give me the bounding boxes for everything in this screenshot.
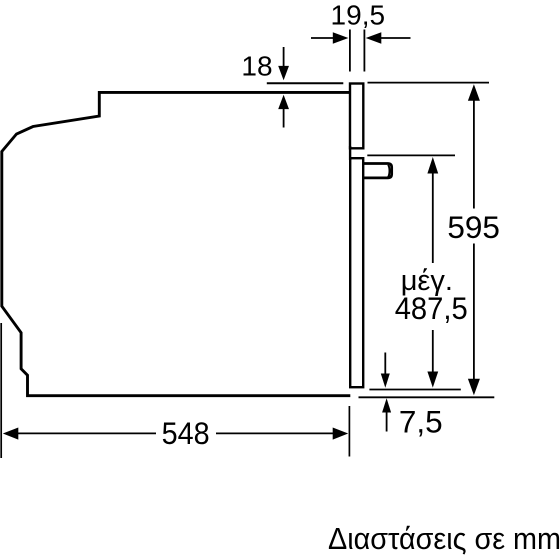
dimension 18 down arrow <box>283 47 285 68</box>
svg-text:548: 548 <box>162 415 210 451</box>
dimension 487,5 up arrow <box>427 157 438 174</box>
dimension 19,5 right arrow <box>380 37 411 39</box>
bottom reference line <box>359 396 495 398</box>
dimension 19,5 extension line left <box>349 30 351 72</box>
hinge knob <box>363 164 391 178</box>
dimension 19,5 left arrow <box>311 37 335 39</box>
oven top trim line <box>267 82 344 84</box>
svg-text:Διαστάσεις σε mm: Διαστάσεις σε mm <box>328 522 560 556</box>
dimension 487,5 top extension line <box>367 154 455 156</box>
dimension 7,5 up arrow <box>382 398 391 412</box>
dimension 595 down arrowhead <box>468 379 480 396</box>
dimension 19,5 extension line right <box>363 30 365 72</box>
hinge knob cap arc <box>388 165 389 177</box>
dimension 18 up arrow <box>278 95 289 109</box>
svg-text:487,5: 487,5 <box>395 290 468 326</box>
front frame upper section <box>350 84 363 149</box>
dimension 595 line <box>473 98 475 209</box>
svg-text:595: 595 <box>447 209 500 245</box>
dimension 548 line <box>17 432 156 434</box>
oven body outline <box>2 92 351 395</box>
svg-text:18: 18 <box>241 51 272 82</box>
svg-text:19,5: 19,5 <box>331 0 386 30</box>
dimension 487,5 down arrow <box>432 330 434 373</box>
front frame left edge connector <box>349 146 351 160</box>
dimension 595 top extension line <box>368 82 490 84</box>
dimension 487,5 bottom extension line <box>369 389 460 391</box>
dimension 548 left arrowhead <box>3 428 18 440</box>
dimension 595 up arrowhead <box>468 84 480 101</box>
front frame lower section (door) <box>350 158 363 387</box>
svg-text:7,5: 7,5 <box>399 404 443 440</box>
dimension 548 right extension line <box>348 406 350 457</box>
dimension 548 right arrowhead <box>333 428 349 440</box>
dimension 548 left extension line <box>0 323 2 458</box>
dimension 7,5 down arrow <box>384 353 386 375</box>
